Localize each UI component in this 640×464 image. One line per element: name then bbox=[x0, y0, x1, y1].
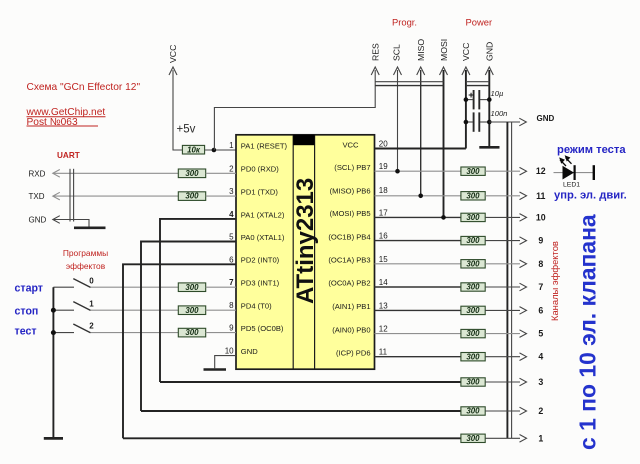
wire R8 to output 11 bbox=[485, 192, 526, 200]
wire pin 6 to channel 1 feed bbox=[123, 264, 236, 438]
ground symbol power bbox=[479, 146, 499, 149]
svg-text:6: 6 bbox=[229, 255, 234, 264]
node MOSI junction bbox=[441, 215, 446, 220]
wire pin 5 to channel 2 feed bbox=[141, 242, 236, 412]
svg-text:17: 17 bbox=[379, 208, 388, 217]
capacitor C1 10u bbox=[466, 89, 504, 109]
wire pin 20 to VCC bbox=[375, 148, 466, 150]
wire R6 to pin 9 bbox=[206, 332, 236, 334]
svg-text:2: 2 bbox=[538, 406, 543, 416]
wire uart cable line b bbox=[73, 169, 75, 222]
svg-text:VCC: VCC bbox=[342, 140, 359, 149]
wire GND rail vertical b bbox=[511, 122, 513, 438]
svg-text:8: 8 bbox=[229, 301, 234, 310]
wire channel 3 row bbox=[160, 381, 461, 383]
U1 pin 11 label (ICP) PD6 bbox=[336, 348, 388, 358]
svg-text:2: 2 bbox=[89, 322, 94, 331]
svg-text:(OC0A) PB2: (OC0A) PB2 bbox=[328, 279, 370, 288]
U1 pin 16 label (OC1B) PB4 bbox=[328, 232, 388, 242]
svg-text:100n: 100n bbox=[491, 109, 508, 118]
svg-text:GND: GND bbox=[29, 216, 47, 225]
svg-text:RXD: RXD bbox=[29, 169, 46, 178]
U1 pin 1 label PA1 (RESET) bbox=[229, 141, 287, 150]
wire pin 10 to ground bbox=[215, 356, 236, 369]
svg-text:(ICP) PD6: (ICP) PD6 bbox=[336, 348, 371, 357]
svg-text:300: 300 bbox=[185, 169, 199, 178]
node SCL junction bbox=[395, 169, 400, 174]
svg-text:PA1 (XTAL2): PA1 (XTAL2) bbox=[241, 210, 285, 219]
switch SW1 stop bbox=[53, 299, 178, 310]
node stop junction bbox=[51, 308, 56, 313]
resistor R5 300 bbox=[178, 306, 205, 315]
svg-text:0: 0 bbox=[89, 276, 94, 285]
svg-text:1: 1 bbox=[89, 299, 94, 308]
wire channel 2 row bbox=[141, 410, 461, 412]
svg-text:300: 300 bbox=[466, 283, 480, 292]
wire R15 to output 4 bbox=[485, 353, 526, 361]
wire pin 4 to channel 3 feed bbox=[160, 219, 236, 382]
wire uart cable line a bbox=[69, 169, 71, 222]
svg-text:PA1 (RESET): PA1 (RESET) bbox=[241, 141, 288, 150]
svg-text:(SCL) PB7: (SCL) PB7 bbox=[334, 163, 370, 172]
wire programming rail upper bbox=[375, 81, 443, 83]
svg-text:4: 4 bbox=[229, 210, 234, 219]
svg-text:1: 1 bbox=[538, 433, 543, 443]
wire channel 1 row bbox=[123, 437, 461, 439]
svg-text:300: 300 bbox=[466, 306, 480, 315]
svg-text:16: 16 bbox=[379, 232, 388, 241]
svg-text:1: 1 bbox=[229, 141, 234, 150]
net SCL bbox=[392, 44, 402, 171]
resistor R11 300 bbox=[461, 259, 485, 268]
node VCC (+5v supply) bbox=[168, 45, 196, 150]
node C1-GND junction bbox=[487, 97, 492, 102]
svg-text:VCC: VCC bbox=[461, 43, 471, 61]
wire R10 to output 9 bbox=[485, 237, 526, 245]
svg-text:(MISO) PB6: (MISO) PB6 bbox=[330, 187, 371, 196]
resistor R15 300 bbox=[461, 352, 485, 361]
wire programming rail lower bbox=[375, 85, 443, 87]
resistor R17 300 bbox=[461, 407, 485, 416]
title text www.GetChip.net bbox=[26, 107, 106, 118]
wire power rail lower bbox=[466, 85, 489, 87]
svg-text:300: 300 bbox=[466, 259, 480, 268]
U1 pin 10 label GND bbox=[225, 347, 258, 356]
node MISO junction bbox=[418, 194, 423, 199]
wire pin 12 row 5 bbox=[375, 333, 461, 335]
svg-text:MISO: MISO bbox=[416, 39, 426, 61]
svg-text:4: 4 bbox=[538, 352, 543, 362]
wire pin 16 row 9 bbox=[375, 240, 461, 242]
svg-text:тест: тест bbox=[15, 325, 37, 337]
wire TXD to pin3 bbox=[53, 192, 179, 200]
svg-text:300: 300 bbox=[466, 236, 480, 245]
svg-text:эффектов: эффектов bbox=[66, 261, 106, 271]
svg-text:с 1 по 10 эл. клапана: с 1 по 10 эл. клапана bbox=[575, 214, 601, 450]
wire pin 18 row 11 bbox=[375, 195, 461, 197]
svg-text:300: 300 bbox=[185, 306, 199, 315]
resistor R13 300 bbox=[461, 306, 485, 315]
svg-text:9: 9 bbox=[229, 324, 234, 333]
wire RXD to pin2 bbox=[53, 170, 179, 178]
ground symbol pin10 bbox=[204, 368, 227, 371]
svg-text:Каналы эффектов: Каналы эффектов bbox=[549, 241, 560, 321]
svg-text:RES: RES bbox=[370, 43, 380, 61]
svg-text:режим теста: режим теста bbox=[557, 144, 626, 156]
wire R11 to output 8 bbox=[485, 260, 526, 268]
svg-text:300: 300 bbox=[185, 192, 199, 201]
node C2-GND junction bbox=[487, 120, 492, 125]
svg-text:300: 300 bbox=[466, 407, 480, 416]
wire R2 to pin 2 bbox=[206, 172, 236, 174]
svg-text:19: 19 bbox=[379, 162, 388, 171]
wire power rail upper bbox=[466, 81, 489, 83]
wire pin 13 row 6 bbox=[375, 309, 461, 311]
svg-text:300: 300 bbox=[466, 213, 480, 222]
wire R3 to pin 3 bbox=[206, 195, 236, 197]
wire pin 15 row 8 bbox=[375, 263, 461, 265]
svg-text:PD1 (TXD): PD1 (TXD) bbox=[241, 188, 279, 197]
svg-text:PD5 (OC0B): PD5 (OC0B) bbox=[241, 324, 284, 333]
U1 pin 2 label PD0 (RXD) bbox=[229, 164, 279, 173]
IC U1 ATtiny2313 body bbox=[236, 135, 375, 369]
svg-text:(AIN0) PB0: (AIN0) PB0 bbox=[332, 325, 370, 334]
svg-text:(OC1B) PB4: (OC1B) PB4 bbox=[328, 232, 370, 241]
U1 pin 13 label (AIN1) PB1 bbox=[332, 301, 388, 311]
resistor R16 300 bbox=[461, 378, 485, 387]
resistor R7 300 bbox=[461, 167, 485, 176]
wire pin 14 row 7 bbox=[375, 286, 461, 288]
wire uart gnd bbox=[53, 216, 89, 227]
ground symbol uart bbox=[74, 227, 106, 230]
ground symbol switches bbox=[44, 437, 63, 440]
resistor R18 300 bbox=[461, 434, 485, 443]
svg-text:7: 7 bbox=[229, 278, 234, 287]
svg-text:3: 3 bbox=[538, 377, 543, 387]
resistor R10 300 bbox=[461, 236, 485, 245]
wire R5 to pin 8 bbox=[206, 309, 236, 311]
svg-text:GND: GND bbox=[241, 347, 258, 356]
svg-text:300: 300 bbox=[466, 434, 480, 443]
node C2-VCC junction bbox=[464, 120, 469, 125]
svg-text:(MOSI) PB5: (MOSI) PB5 bbox=[330, 209, 371, 218]
U1 pin 7 label PD3 (INT1) bbox=[229, 278, 280, 287]
net VCC power bbox=[461, 43, 471, 149]
svg-text:18: 18 bbox=[379, 186, 388, 195]
svg-text:14: 14 bbox=[379, 278, 388, 287]
U1 pin 14 label (OC0A) PB2 bbox=[328, 278, 388, 288]
node test junction bbox=[51, 330, 56, 335]
capacitor C2 100n bbox=[466, 109, 508, 132]
resistor R9 300 bbox=[461, 213, 485, 222]
wire R1 to pin1 bbox=[205, 149, 236, 151]
U1 pin 20 label VCC bbox=[342, 140, 388, 150]
svg-text:+5v: +5v bbox=[177, 123, 196, 135]
svg-text:PD2 (INT0): PD2 (INT0) bbox=[241, 256, 280, 265]
svg-text:300: 300 bbox=[466, 352, 480, 361]
svg-text:Post №063: Post №063 bbox=[27, 117, 78, 128]
svg-text:5: 5 bbox=[538, 329, 543, 339]
svg-text:GND: GND bbox=[485, 42, 495, 61]
resistor R6 300 bbox=[178, 328, 205, 337]
node pin1/RES junction bbox=[212, 148, 217, 153]
U1 pin 15 label (OC1A) PB3 bbox=[328, 255, 388, 265]
wire R16 to output 3 bbox=[485, 378, 526, 386]
svg-text:300: 300 bbox=[466, 167, 480, 176]
wire R7 to output 12 bbox=[485, 167, 526, 175]
wire pin 19 row 12 bbox=[375, 170, 461, 172]
wire switch common bbox=[52, 287, 54, 437]
resistor R8 300 bbox=[461, 191, 485, 200]
svg-text:15: 15 bbox=[379, 255, 388, 264]
svg-text:PD0 (RXD): PD0 (RXD) bbox=[241, 165, 279, 174]
svg-text:300: 300 bbox=[466, 378, 480, 387]
resistor R4 300 bbox=[178, 283, 205, 292]
svg-text:(OC1A) PB3: (OC1A) PB3 bbox=[328, 256, 370, 265]
U1 pin 5 label PA0 (XTAL1) bbox=[229, 233, 285, 242]
U1 pin 8 label PD4 (T0) bbox=[229, 301, 272, 310]
U1 pin 12 label (AIN0) PB0 bbox=[332, 325, 388, 335]
svg-text:300: 300 bbox=[185, 283, 199, 292]
U1 pin 9 label PD5 (OC0B) bbox=[229, 324, 284, 333]
wire R18 to output 1 bbox=[485, 435, 526, 443]
resistor R12 300 bbox=[461, 283, 485, 292]
svg-text:PD4 (T0): PD4 (T0) bbox=[241, 302, 272, 311]
svg-text:10: 10 bbox=[225, 347, 234, 356]
resistor R1 10k bbox=[182, 145, 204, 154]
wire pin 17 row 10 bbox=[375, 216, 461, 218]
svg-text:11: 11 bbox=[536, 191, 545, 201]
svg-text:старт: старт bbox=[15, 282, 44, 294]
svg-text:MOSI: MOSI bbox=[439, 39, 449, 61]
svg-text:5: 5 bbox=[229, 233, 234, 242]
svg-text:VCC: VCC bbox=[168, 45, 178, 63]
svg-text:PD3 (INT1): PD3 (INT1) bbox=[241, 279, 280, 288]
label Программы эффектов bbox=[63, 248, 108, 271]
U1 pin 4 label PA1 (XTAL2) bbox=[229, 210, 285, 219]
U1 pin 17 label (MOSI) PB5 bbox=[330, 208, 389, 218]
svg-text:2: 2 bbox=[229, 164, 234, 173]
resistor R3 300 bbox=[178, 192, 205, 201]
svg-text:10µ: 10µ bbox=[491, 89, 504, 98]
svg-text:упр. эл. двиг.: упр. эл. двиг. bbox=[554, 189, 627, 201]
switch SW0 start bbox=[53, 276, 178, 287]
node C1-VCC junction bbox=[464, 97, 469, 102]
svg-text:Схема "GCn Effector 12": Схема "GCn Effector 12" bbox=[27, 82, 141, 93]
svg-text:7: 7 bbox=[538, 282, 543, 292]
wire pin 11 row 4 bbox=[375, 356, 461, 358]
wire GND output bbox=[489, 114, 554, 126]
svg-text:Power: Power bbox=[466, 16, 493, 27]
svg-text:300: 300 bbox=[466, 191, 480, 200]
resistor R14 300 bbox=[461, 329, 485, 338]
svg-text:SCL: SCL bbox=[392, 44, 402, 61]
svg-text:+: + bbox=[468, 90, 474, 101]
wire R9 to output 10 bbox=[485, 214, 526, 222]
svg-text:стоп: стоп bbox=[15, 306, 39, 318]
LED1 bbox=[554, 156, 594, 188]
wire GND rail vertical a bbox=[506, 122, 508, 438]
U1 pin 3 label PD1 (TXD) bbox=[229, 187, 278, 196]
svg-text:3: 3 bbox=[229, 187, 234, 196]
svg-text:10: 10 bbox=[536, 212, 546, 222]
svg-text:GND: GND bbox=[537, 114, 555, 123]
svg-text:6: 6 bbox=[538, 305, 543, 315]
svg-text:300: 300 bbox=[466, 329, 480, 338]
svg-text:12: 12 bbox=[536, 166, 546, 176]
switch SW2 test bbox=[53, 322, 178, 333]
net RES bbox=[214, 43, 380, 150]
U1 pin 19 label (SCL) PB7 bbox=[334, 162, 388, 172]
U1 pin 18 label (MISO) PB6 bbox=[330, 186, 389, 196]
svg-text:TXD: TXD bbox=[29, 192, 45, 201]
title text Post No063 bbox=[27, 117, 99, 128]
svg-text:13: 13 bbox=[379, 301, 388, 310]
svg-text:(AIN1) PB1: (AIN1) PB1 bbox=[332, 302, 370, 311]
svg-text:11: 11 bbox=[379, 348, 388, 357]
wire R14 to output 5 bbox=[485, 330, 526, 338]
U1 pin 6 label PD2 (INT0) bbox=[229, 255, 280, 264]
wire R13 to output 6 bbox=[485, 307, 526, 315]
svg-text:8: 8 bbox=[538, 259, 543, 269]
svg-text:9: 9 bbox=[538, 236, 543, 246]
svg-text:PA0 (XTAL1): PA0 (XTAL1) bbox=[241, 233, 285, 242]
svg-text:UART: UART bbox=[57, 151, 80, 160]
resistor R2 300 bbox=[178, 169, 205, 178]
svg-text:ATtiny2313: ATtiny2313 bbox=[292, 178, 319, 304]
wire R4 to pin 7 bbox=[206, 286, 236, 288]
net GND power bbox=[485, 42, 495, 147]
wire R12 to output 7 bbox=[485, 283, 526, 291]
svg-text:LED1: LED1 bbox=[563, 182, 580, 189]
svg-text:20: 20 bbox=[379, 140, 388, 149]
net MOSI bbox=[439, 39, 449, 218]
svg-text:10к: 10к bbox=[187, 145, 201, 154]
svg-text:300: 300 bbox=[185, 328, 199, 337]
wire R17 to output 2 bbox=[485, 407, 526, 415]
svg-text:Программы: Программы bbox=[63, 248, 108, 258]
svg-text:12: 12 bbox=[379, 325, 388, 334]
net MISO bbox=[416, 39, 426, 196]
svg-text:Progr.: Progr. bbox=[392, 16, 417, 27]
